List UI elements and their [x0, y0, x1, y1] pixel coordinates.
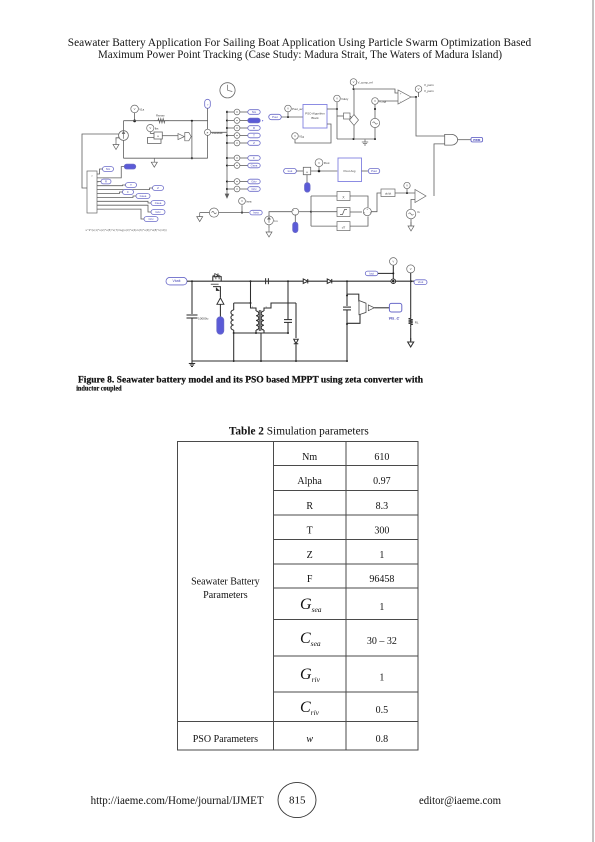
svg-text:dT: dT — [342, 225, 346, 229]
svg-text:V: V — [392, 260, 394, 264]
gain block small — [337, 115, 344, 117]
svg-text:Alpha: Alpha — [297, 476, 322, 487]
svg-text:Seawater Battery: Seawater Battery — [191, 577, 260, 588]
goto tag T — [248, 133, 260, 138]
svg-text:F: F — [127, 190, 129, 194]
transformer T1 primary — [256, 311, 259, 330]
Pout Avg block — [338, 158, 362, 182]
from tag Gsea (battery model input) — [136, 194, 150, 199]
transformer T1 core — [258, 310, 260, 331]
svg-text:R: R — [253, 126, 255, 130]
ground G7 — [191, 361, 193, 364]
svg-text:Criv: Criv — [252, 187, 258, 191]
wire tag Csea to Fcn — [97, 201, 151, 203]
from tag Vout2 (vertical selected) — [305, 183, 311, 193]
goto tag Criv — [248, 187, 260, 192]
wire tag F to Fcn — [97, 192, 123, 194]
wire Vduty down to rail — [336, 109, 338, 139]
wire V_sgl to sawtooth source — [374, 104, 376, 118]
voltmeter V2 — [404, 182, 410, 188]
svg-text:R: R — [105, 180, 107, 184]
wire tag Z to Fcn — [97, 188, 153, 190]
wire Im to sum — [269, 212, 292, 216]
svg-text:Csea: Csea — [300, 630, 321, 648]
diode D1 — [303, 279, 308, 284]
series capacitor C1 — [265, 278, 267, 284]
voltmeter V_sgl — [372, 98, 379, 105]
voltmeter Ib — [147, 125, 154, 132]
from tag Pout (PSO input) — [269, 114, 282, 119]
wire Vbatt tag to voltmeter — [207, 108, 209, 129]
svg-text:Vout: Vout — [418, 280, 424, 284]
gate driver triangle — [217, 298, 224, 304]
wire probe to tag — [374, 307, 389, 309]
svg-text:V: V — [353, 80, 355, 84]
table outer border — [178, 442, 418, 750]
goto tag VIs_C — [389, 303, 401, 312]
svg-text:V_pwm: V_pwm — [424, 83, 434, 87]
voltmeter Pout_avg — [285, 105, 292, 112]
svg-text:Iout: Iout — [369, 271, 374, 275]
goto tag Pout2 — [368, 168, 380, 173]
clock block — [220, 83, 235, 98]
from tag Iout2 — [284, 168, 297, 173]
wire tag a1pha to Fcn — [97, 167, 124, 178]
svg-text:T: T — [307, 525, 313, 536]
svg-text:Iout: Iout — [288, 169, 293, 173]
svg-text:Isea: Isea — [246, 199, 252, 203]
gain triangle K1 — [178, 134, 184, 140]
svg-text:815: 815 — [289, 795, 306, 807]
block dT — [311, 225, 337, 227]
AND gate — [445, 134, 458, 145]
svg-text:T: T — [130, 183, 132, 187]
svg-text:V1g: V1g — [299, 134, 304, 138]
wire top rail — [124, 120, 208, 122]
svg-text:0.97: 0.97 — [373, 476, 391, 487]
sum block SUM1 — [292, 208, 299, 215]
pwm bottom rail — [337, 138, 375, 140]
mosfet Q1 — [213, 277, 221, 282]
sample circle for Gsea — [226, 164, 228, 166]
wire PSO output — [327, 108, 337, 110]
comparator U1 — [398, 90, 411, 104]
svg-text:610: 610 — [374, 452, 389, 463]
wire tag T to Fcn — [97, 184, 126, 187]
svg-text:Maximum Power Point Tracking (: Maximum Power Point Tracking (Case Study… — [98, 49, 502, 61]
wire secondary to rail — [260, 333, 262, 361]
wire Iout tag to node — [378, 272, 393, 274]
svg-text:Z: Z — [157, 186, 159, 190]
voltmeter V1g — [292, 133, 299, 140]
ground G5 — [268, 225, 270, 228]
goto tag Z — [248, 141, 260, 146]
svg-text:R: R — [306, 501, 313, 512]
goto tag F — [248, 156, 260, 161]
svg-text:V: V — [294, 134, 296, 138]
from tag T (battery model input) — [126, 183, 137, 188]
svg-text:V: V — [318, 161, 320, 165]
voltmeter V_comp_ref — [350, 79, 357, 86]
voltmeter V_pwm — [415, 86, 422, 93]
Fcn block f(u) — [87, 171, 97, 213]
svg-text:V1a: V1a — [139, 107, 144, 111]
wire gate to PWM tag — [219, 304, 221, 316]
diode D3 — [295, 303, 297, 338]
svg-text:w: w — [306, 734, 313, 745]
svg-text:inductor coupled: inductor coupled — [76, 385, 122, 392]
sample circle for a1pha — [226, 119, 228, 121]
ground G1 (arrow) — [116, 138, 119, 141]
svg-text:Vseabatt: Vseabatt — [211, 131, 222, 135]
voltmeter V1a — [131, 105, 139, 113]
goto tag a1pha — [248, 118, 260, 123]
svg-text:V_pwm: V_pwm — [424, 89, 434, 93]
mosfet gate wire — [213, 287, 220, 298]
wire to comparator plus input — [354, 89, 399, 93]
svg-text:V: V — [406, 184, 408, 188]
table column dividers — [272, 442, 274, 750]
svg-text:PWM: PWM — [473, 138, 481, 142]
wire V_sgl to comparator minus — [378, 100, 398, 102]
svg-text:V: V — [241, 199, 243, 203]
wire Pout to PSO block — [281, 116, 303, 118]
svg-text:1: 1 — [379, 602, 384, 613]
block X3 — [311, 195, 337, 197]
svg-text:Griv: Griv — [155, 210, 161, 214]
from tag PWM2 (vertical selected) — [217, 317, 224, 335]
wire Pout Avg output — [362, 170, 369, 172]
svg-text:V: V — [149, 126, 151, 130]
sample circle for F — [226, 157, 228, 159]
svg-text:V: V — [134, 107, 136, 111]
wire tag Gsea to Fcn — [97, 196, 136, 197]
goto tag Vout — [414, 280, 427, 285]
svg-text:Z: Z — [253, 141, 255, 145]
svg-text:Figure 8. Seawater battery mod: Figure 8. Seawater battery model and its… — [78, 376, 424, 386]
wire U2 out to AND gate — [434, 144, 445, 196]
svg-text:Im: Im — [274, 219, 278, 223]
goto tag Nm — [248, 110, 260, 115]
svg-text:V: V — [374, 99, 376, 103]
svg-text:Griv: Griv — [300, 666, 321, 684]
voltmeter Vduty — [334, 95, 341, 102]
current sensor node — [392, 265, 394, 281]
comparator U2 — [415, 190, 426, 203]
svg-text:Nm: Nm — [106, 167, 111, 171]
svg-text:Z: Z — [307, 550, 313, 561]
svg-text:Pout: Pout — [272, 115, 278, 119]
sawtooth source AC2 — [370, 118, 379, 127]
wire tag Criv to Fcn — [97, 209, 144, 219]
sample circle for Criv — [226, 188, 228, 190]
ground G2 (arrow) — [153, 158, 155, 162]
sample circle for Griv — [226, 180, 228, 182]
wire Vseabatt to bottom rail — [207, 135, 209, 158]
svg-text:Gsea: Gsea — [300, 596, 322, 614]
goto tag Griv — [248, 179, 260, 184]
wire tag Griv to Fcn — [97, 205, 151, 212]
svg-text:Table 2 Simulation parameters: Table 2 Simulation parameters — [229, 425, 369, 437]
from tag a1pha (battery model input) — [124, 164, 136, 169]
svg-text:30 – 32: 30 – 32 — [367, 636, 397, 647]
goto tag R — [248, 126, 260, 131]
from tag Griv (battery model input) — [151, 210, 165, 215]
page right edge line — [592, 0, 594, 842]
svg-text:F: F — [253, 156, 255, 160]
wire diamond to comparator rail — [353, 89, 355, 115]
capacitor C2 — [287, 281, 289, 319]
goto bus vertical wire — [226, 111, 228, 195]
voltmeter Iout_m — [390, 258, 398, 266]
table PSO separator row line — [178, 721, 418, 723]
wire SUM2 to derivative — [371, 193, 381, 212]
from tag Csea (battery model input) — [151, 201, 165, 206]
from tag Vbatt2 — [166, 277, 187, 285]
svg-text:10000u: 10000u — [198, 317, 209, 321]
svg-text:Nm: Nm — [302, 452, 317, 463]
svg-text:Block: Block — [311, 116, 319, 120]
svg-text:Csea: Csea — [155, 201, 162, 205]
wire Vout_m to rail — [410, 273, 412, 281]
wire to primary winding — [251, 303, 257, 311]
svg-text:▸: ▸ — [262, 119, 264, 123]
bus arrowhead — [225, 194, 229, 198]
wire to product X2 — [296, 170, 303, 172]
wire derivative to comparator U2 — [395, 192, 415, 194]
svg-text:Pout: Pout — [371, 169, 377, 173]
svg-text:Vbatt: Vbatt — [173, 279, 181, 283]
svg-text:http://iaeme.com/Home/journal/: http://iaeme.com/Home/journal/IJMET — [91, 795, 264, 807]
svg-text:Parameters: Parameters — [203, 590, 248, 601]
svg-text:Gsea: Gsea — [140, 194, 147, 198]
goto tag PWM — [471, 137, 483, 142]
wire node A down — [250, 281, 252, 303]
controlled current source Isrc — [123, 121, 125, 131]
svg-text:96458: 96458 — [369, 574, 394, 585]
from tag Iout (converter) — [365, 271, 378, 276]
sample circle for Z — [226, 142, 228, 144]
wire X1 input hook — [148, 138, 162, 144]
from tag F (battery model input) — [123, 190, 134, 195]
wire converter bottom rail — [192, 360, 347, 362]
controlled current source AC1 — [209, 208, 218, 217]
voltmeter Vseabatt — [205, 129, 211, 135]
wire PSO feedback V1g — [295, 124, 331, 143]
diode D2 — [327, 279, 332, 284]
voltage measurement probe — [347, 294, 359, 301]
from tag Criv (battery model input) — [144, 217, 158, 222]
svg-text:T: T — [253, 134, 255, 138]
svg-text:PSO Parameters: PSO Parameters — [193, 734, 258, 745]
wire parallel split — [310, 196, 312, 226]
feedback wire to Fcn — [82, 134, 119, 188]
output capacitor Cout branch — [346, 281, 348, 306]
from tag Nm (battery model input) — [103, 167, 114, 172]
from tag Z (battery model input) — [153, 186, 164, 191]
svg-text:fs: fs — [418, 210, 421, 214]
svg-text:Isea: Isea — [253, 211, 259, 215]
svg-text:1: 1 — [379, 672, 384, 683]
ground G4 — [364, 140, 366, 143]
wire tag Nm to Fcn — [97, 169, 103, 174]
svg-text:300: 300 — [374, 525, 389, 536]
voltmeter Isea — [239, 198, 246, 205]
svg-text:Rseaw: Rseaw — [156, 114, 166, 118]
sample circle for Nm — [226, 111, 228, 113]
svg-text:Griv: Griv — [251, 180, 257, 184]
wire Vseabatt to goto bus — [211, 131, 227, 133]
mosfet source bar — [211, 283, 219, 285]
svg-text:PSO Algorithm: PSO Algorithm — [305, 112, 325, 116]
wire X1 to gain — [162, 135, 178, 137]
voltmeter Pout2 — [315, 159, 323, 167]
svg-text:V: V — [336, 97, 338, 101]
wire feedback vertical — [191, 121, 193, 159]
svg-text:du/dt: du/dt — [385, 191, 391, 195]
svg-text:Ibs: Ibs — [155, 127, 159, 131]
capacitor Cin 10000u — [191, 281, 193, 314]
current source Im — [265, 216, 274, 225]
svg-text:u^2*(u(1)*u(2)*u(5)*u(7)/log(u: u^2*(u(1)*u(2)*u(5)*u(7)/log(u(3)*u(4)/u… — [86, 228, 167, 232]
footer page number ellipse — [278, 782, 316, 817]
wire comparator U1 output — [411, 96, 416, 98]
inductor L1 — [233, 303, 235, 310]
goto tag Vbatt (vertical) — [205, 99, 211, 108]
svg-text:Vduty: Vduty — [341, 97, 349, 101]
load resistor RL — [410, 281, 412, 315]
svg-text:V_comp_ref: V_comp_ref — [358, 80, 373, 84]
product block X1 — [154, 132, 162, 139]
svg-text:V: V — [418, 87, 420, 91]
svg-text:0.5: 0.5 — [376, 705, 389, 716]
svg-text:VIs_C: VIs_C — [388, 316, 399, 321]
wire SUM1 out — [299, 211, 311, 213]
wire converter top rail — [187, 280, 414, 282]
ground G3 — [200, 212, 210, 214]
wire secondary top — [264, 303, 296, 311]
sample circle for R — [226, 127, 228, 129]
wire X2 to Pout Avg — [311, 170, 338, 172]
svg-text:V: V — [287, 107, 289, 111]
wire AND output — [458, 139, 471, 141]
svg-text:Criv: Criv — [300, 699, 320, 717]
svg-text:Nm: Nm — [252, 110, 257, 114]
svg-text:Pout: Pout — [324, 161, 330, 165]
block saturation SAT1 — [311, 211, 337, 213]
svg-text:0.8: 0.8 — [376, 734, 389, 745]
sample circle for T — [226, 134, 228, 136]
svg-text:Pout Avg: Pout Avg — [344, 169, 356, 173]
derivative block du/dt — [381, 189, 395, 197]
from tag R (battery model input) — [101, 179, 111, 184]
svg-text:8.3: 8.3 — [376, 501, 389, 512]
wire to inductor L1 — [234, 302, 251, 304]
saturation diamond — [350, 115, 359, 126]
svg-text:Gsea: Gsea — [251, 164, 258, 168]
from tag IL (vertical selected) — [293, 222, 298, 233]
goto tag Isea — [250, 210, 262, 215]
svg-text:-: - — [400, 99, 401, 103]
wire bottom rail — [124, 157, 208, 159]
table row lines — [273, 464, 418, 466]
svg-text:editor@iaeme.com: editor@iaeme.com — [419, 795, 501, 807]
resistor Rseaw — [154, 119, 169, 123]
ground G6 (arrow) — [410, 219, 412, 226]
svg-text:V: V — [410, 267, 412, 271]
wire transformer bottom link — [234, 332, 288, 334]
voltmeter Vout_m — [407, 265, 415, 273]
wire U1 out to AND gate — [416, 97, 445, 136]
transformer T1 secondary — [261, 311, 264, 330]
svg-text:Seawater Battery Application F: Seawater Battery Application For Sailing… — [68, 37, 532, 49]
product block X2 — [303, 167, 310, 174]
PSO Algorithm Block — [303, 105, 327, 129]
svg-text:Pout_avg: Pout_avg — [292, 107, 304, 111]
wire V1a to top rail — [134, 113, 136, 121]
svg-text:1: 1 — [379, 550, 384, 561]
goto tag Gsea — [248, 163, 260, 168]
svg-text:Criv: Criv — [149, 217, 155, 221]
svg-text:F: F — [307, 574, 313, 585]
ground G8 (arrow) — [410, 328, 412, 341]
sum block SUM2 — [363, 208, 371, 216]
svg-text:RL: RL — [415, 321, 419, 325]
signal converter S-PS — [185, 133, 191, 141]
wire U2 minus input — [411, 200, 415, 210]
sine source fs — [406, 209, 416, 219]
wire tag R to Fcn — [97, 181, 101, 183]
